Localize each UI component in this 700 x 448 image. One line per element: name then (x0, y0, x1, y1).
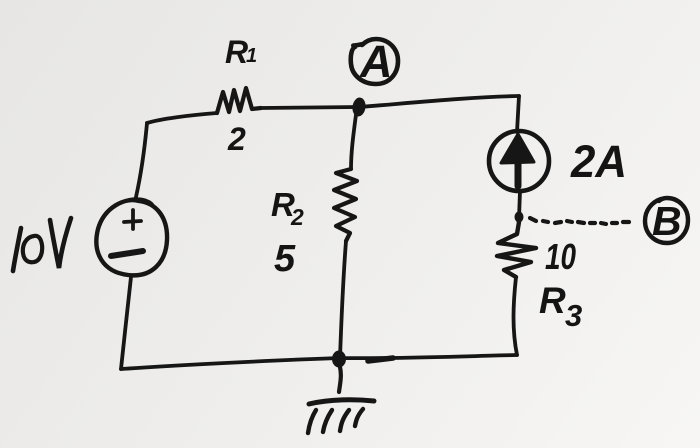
svg-text:B: B (652, 198, 682, 244)
node A circle (351, 39, 398, 84)
svg-text:R: R (539, 280, 566, 321)
label 10V (13, 218, 71, 271)
resistor R1 (217, 88, 261, 113)
current source I1 (489, 131, 549, 191)
wire (current source to node B junction) (519, 191, 520, 218)
resistor R3 (497, 222, 536, 277)
voltage source V1 (96, 199, 167, 275)
svg-text:2: 2 (227, 121, 246, 157)
wire bottom (ground node to bottom-right corner) (339, 355, 517, 358)
wire middle vertical (R2 to ground node) (340, 241, 346, 358)
wire top (R1 to node A junction) (261, 107, 359, 108)
svg-text:5: 5 (274, 238, 296, 280)
wire top (node A to top-right corner) (359, 96, 519, 107)
ground (308, 367, 374, 433)
ground node junction dot (332, 351, 346, 368)
node A junction dot (351, 97, 367, 118)
svg-text:2A: 2A (570, 136, 627, 187)
svg-text:R: R (225, 34, 248, 70)
wire top (corner to R1) (147, 113, 217, 123)
dotted line (node to B) (530, 218, 629, 224)
wire bottom (left corner to ground node) (121, 358, 339, 369)
svg-text:1: 1 (246, 45, 257, 67)
wire left-top vertical (corner to V source) (136, 123, 147, 197)
node B junction dot (515, 212, 524, 223)
resistor R2 (334, 169, 357, 241)
wire middle vertical (node A to R2) (351, 107, 357, 169)
node B circle (645, 198, 688, 243)
wire right-bottom vertical (R3 to bottom-right corner) (514, 277, 518, 355)
svg-text:A: A (359, 36, 393, 87)
svg-text:3: 3 (565, 298, 582, 333)
wire retrace dash on bottom wire (368, 358, 393, 361)
svg-text:10: 10 (545, 236, 576, 277)
wire left-bottom vertical (V source to bottom-left corner) (121, 277, 131, 369)
svg-text:2: 2 (290, 204, 304, 230)
wire right vertical (corner to current source) (517, 96, 519, 132)
